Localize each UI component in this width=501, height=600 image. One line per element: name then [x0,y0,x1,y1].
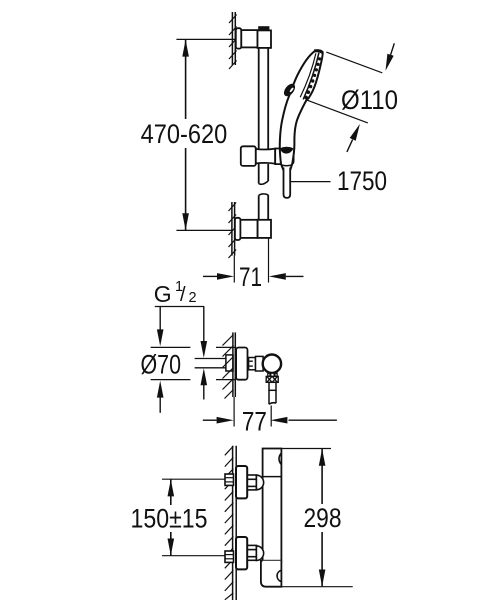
dimension 71 right extension line [268,239,270,283]
Ø70 top extension line segments [151,346,191,348]
lower union dome [256,546,263,561]
dimension 71 left extension line [233,256,235,283]
svg-text:G: G [154,281,172,307]
svg-text:2: 2 [189,290,197,306]
svg-text:150±15: 150±15 [131,504,208,534]
svg-text:Ø110: Ø110 [341,85,398,115]
dimension 150±15 top extension line [162,478,225,480]
holder right piece [275,148,293,165]
valve connector section 1 [249,358,256,370]
body seam upper [263,476,282,478]
rail top bracket [258,30,272,48]
holder middle piece [256,149,275,164]
wall (bottom segment) double line [232,202,235,256]
hose below handle [284,168,291,198]
wall (bottom drawing) [233,446,237,600]
svg-text:77: 77 [242,406,267,436]
label G 1/2 [154,279,197,307]
Ø70 bottom extension line segments [151,379,191,381]
svg-text:71: 71 [239,262,262,292]
bottom wall mount body [240,220,257,238]
thermostat body [263,449,282,561]
dimension 77 left extension line [233,397,235,427]
dimension 470-620 vertical line upper segment [185,40,187,119]
wall hatching (middle drawing) [223,335,234,399]
rail tube upper segment [258,48,260,149]
handle grip end line [281,164,292,167]
dimension 470-620 top extension line [176,38,235,40]
supply pipe stub [226,355,233,371]
wall hatching (bottom segment) [229,203,237,259]
body knob bump upper [279,453,281,464]
rail bottom bracket [258,220,271,238]
rail segment below break [258,195,260,219]
top wall mount flange [236,28,242,48]
holder left knob [241,146,256,166]
head face rim inner line [303,53,319,100]
Ø110 lower extension line [306,100,368,123]
svg-text:470-620: 470-620 [141,119,228,149]
upper union escutcheon [236,466,247,498]
knurled outlet nut [266,376,278,382]
dimension 298 bottom extension line [281,586,352,588]
Ø70 dimension line upper segment with down arrow [159,307,161,331]
dimension 150±15 vertical line lower segment [170,532,172,556]
dimension 150±15 top arrow [168,479,175,496]
dimension 77 right extension line [270,406,272,427]
wall hatching (top segment) [229,15,237,70]
body knob bump lower [277,570,281,581]
rail segment between holder and break [258,164,260,184]
upper union dome [256,475,263,490]
wall (top segment) double line [232,12,235,65]
outlet tube [269,382,276,390]
head face plate line [300,53,316,97]
svg-text:1750: 1750 [337,166,387,196]
dimension 470-620 bottom arrow [182,213,189,230]
bottom wall mount flange [235,218,241,240]
swivel ball joint [263,355,281,373]
spray mode button [283,83,296,97]
dimension 470-620 vertical line lower segment [185,148,187,230]
dimension 71 right arrow + tail [286,275,304,277]
top wall mount body [241,30,257,47]
svg-text:/: / [180,284,186,306]
Ø110 upper extension line [326,52,382,73]
lower union hex nut [247,545,256,560]
body bottom section [261,561,282,587]
svg-text:Ø70: Ø70 [141,350,182,380]
ring below ball [268,373,277,376]
dimension 150±15 vertical line upper segment [170,479,172,505]
valve escutcheon flange [236,348,247,380]
dimension 150±15 bottom arrow [168,539,175,556]
dimension 298 top extension line [281,448,331,450]
dimension 298 vertical line lower segment [321,532,323,586]
rail break lower cut [259,194,269,196]
dimension 77 left arrow + tail [203,419,217,421]
svg-text:298: 298 [304,503,342,533]
wall hatching (bottom drawing) [225,446,234,600]
dimension 77 right arrow + tail [289,419,337,421]
dimension 150±15 bottom extension line [162,555,225,557]
valve connector section 2 [256,356,264,371]
rail break upper cut [259,181,269,184]
Ø110 upper arrow [391,43,395,55]
leader line for 1750 [291,181,331,183]
shower head and handle outline (white filled) [280,50,323,169]
dimension 298 vertical line upper segment [321,449,323,504]
upper union hex nut [247,475,256,490]
upper union supply nut [225,474,234,485]
wall (middle drawing) [233,332,235,397]
Ø110 lower arrow [347,140,353,152]
supply pipe lines [195,358,227,360]
G1/2 dimension line upper segment with down arrow [203,307,205,343]
rail top cap (dark) [258,26,269,30]
spray nozzles (dots along rim) [304,57,321,99]
dimension 470-620 bottom extension line [176,229,231,231]
dark crescent where handle enters holder [280,147,294,154]
dimension 298 top arrow [319,449,326,466]
lower union escutcheon [236,537,247,569]
Ø70 dimension line lower segment with up arrow [159,397,161,413]
G1/2 leader underline [155,306,204,308]
head rim top thick edge [314,51,323,53]
G1/2 dimension line lower segment with up arrow [203,385,205,400]
dimension 470-620 top arrow [182,40,189,57]
lower union supply nut [225,551,234,562]
dimension 298 bottom arrow [319,570,326,587]
dimension 71 left arrow + tail [203,275,218,277]
